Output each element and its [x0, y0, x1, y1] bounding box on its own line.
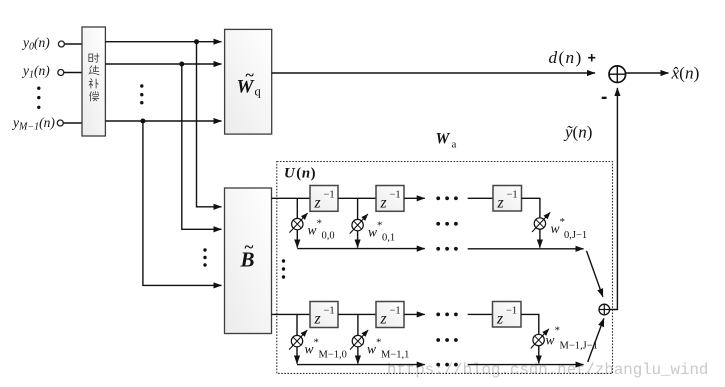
wire row2 branch2 down through multiplier	[357, 314, 359, 363]
vertical ellipsis between rows	[282, 259, 285, 278]
multiplier wM-1,0	[289, 330, 307, 350]
wire branch2 down to B	[182, 64, 222, 229]
svg-text:0,1: 0,1	[382, 233, 395, 244]
svg-text:y1(n): y1(n)	[21, 63, 50, 81]
vertical ellipsis between wires	[140, 84, 143, 104]
block B	[225, 188, 272, 334]
svg-text:a: a	[452, 139, 457, 151]
wire row1 branch1 down through multiplier	[296, 198, 298, 247]
svg-text:−1: −1	[324, 306, 335, 317]
wire row1 branch2 down through multiplier	[357, 198, 359, 247]
wire row2 bus right	[468, 364, 584, 366]
svg-text:yM−1(n): yM−1(n)	[11, 115, 55, 133]
wire into box3 row2	[468, 313, 493, 315]
svg-text:z: z	[496, 310, 503, 327]
svg-text:~: ~	[245, 238, 254, 257]
wire branch1 down to B	[197, 42, 222, 207]
char 补	[89, 79, 98, 88]
wire row2 diagonal to lower summer	[588, 318, 604, 362]
multiplier w00	[289, 213, 307, 233]
svg-text:0,J−1: 0,J−1	[564, 230, 587, 241]
block delay compensation (Chinese label drawn as paths)	[82, 27, 105, 136]
multiplier w0J-1	[532, 212, 550, 232]
svg-text:*: *	[314, 337, 320, 349]
svg-text:*: *	[560, 216, 566, 228]
svg-text:−1: −1	[507, 190, 518, 201]
svg-text:w: w	[367, 342, 376, 357]
svg-text:z: z	[380, 194, 387, 211]
svg-text:M−1,1: M−1,1	[381, 350, 409, 361]
wire output xhat	[626, 72, 669, 74]
ellipsis row2 multiplier level	[436, 338, 457, 342]
summer lower	[599, 304, 610, 315]
svg-text:w: w	[308, 223, 317, 238]
char 延	[89, 66, 99, 75]
delay z^-1 row2 box2	[376, 302, 404, 328]
wire box2 out arrow row2	[404, 313, 425, 315]
dashed box U(n)	[277, 162, 613, 374]
svg-text:z: z	[497, 194, 504, 211]
svg-text:+: +	[588, 51, 596, 67]
delay z^-1 row2 box1	[310, 302, 338, 328]
wire line2 from delay block to Wq	[105, 63, 221, 65]
input terminal circle 1	[58, 41, 64, 47]
delay z^-1 row2 box3	[493, 302, 522, 328]
wire row1 bus	[297, 248, 425, 250]
svg-text:z: z	[314, 194, 321, 211]
wire y1 to delay-compensation block	[64, 72, 82, 74]
delay z^-1 row1 box1	[310, 186, 338, 212]
input terminal circle 3	[57, 120, 63, 126]
wire row1 bus right	[468, 248, 584, 250]
multiplier w01	[350, 214, 368, 234]
junction dot on line2	[179, 62, 184, 67]
wire line1 from delay block to Wq	[105, 41, 221, 43]
svg-text:−1: −1	[506, 306, 517, 317]
input terminal circle 2	[58, 70, 64, 76]
wire d(n) from Wq to summer	[272, 72, 595, 74]
block Wq	[225, 29, 272, 134]
junction dot on line1	[194, 39, 199, 44]
char 偿	[90, 91, 99, 100]
ellipsis row1 multiplier level	[436, 222, 457, 226]
delay z^-1 row1 box3	[493, 186, 522, 212]
junction dot on line3	[140, 119, 145, 124]
ellipsis row1 bus	[436, 247, 457, 251]
svg-text:~: ~	[246, 67, 255, 84]
svg-text:z: z	[314, 310, 321, 327]
wire into box3 row1	[468, 197, 493, 199]
wire ytilde vertical into summer	[610, 88, 618, 310]
svg-text:M−1,0: M−1,0	[319, 350, 347, 361]
ellipsis row2 bus	[436, 363, 457, 367]
wire box2 out arrow row1	[404, 197, 425, 199]
svg-text:w: w	[305, 342, 314, 357]
svg-text:ỹ(n): ỹ(n)	[563, 123, 592, 142]
svg-text:U(n): U(n)	[284, 166, 316, 182]
char 时	[89, 54, 99, 63]
delay z^-1 row1 box2	[376, 186, 404, 212]
wire box3 out and down row1	[522, 198, 540, 247]
svg-text:y0(n): y0(n)	[21, 35, 50, 53]
svg-text:-: -	[601, 87, 607, 108]
svg-text:w: w	[546, 333, 555, 348]
svg-text:−1: −1	[390, 190, 401, 201]
wire line3 from delay block to Wq	[105, 120, 221, 122]
ellipsis row1 line	[436, 196, 457, 200]
wire yM-1 to delay-compensation block	[64, 122, 83, 124]
svg-text:d(n): d(n)	[549, 48, 583, 67]
wire box1 to box2 row1	[338, 197, 376, 199]
svg-text:q: q	[255, 85, 262, 99]
multiplier wM-1,J-1	[531, 329, 549, 349]
svg-text:w: w	[551, 221, 560, 236]
wire box3 out and down row2	[521, 314, 539, 363]
wire row2 bus	[297, 364, 425, 366]
svg-text:−1: −1	[390, 306, 401, 317]
svg-text:x̂(n): x̂(n)	[671, 64, 700, 83]
wire row2 branch1 down through multiplier	[296, 314, 298, 363]
summer main	[609, 66, 626, 83]
svg-text:0,0: 0,0	[322, 231, 335, 242]
svg-text:W: W	[436, 131, 451, 148]
svg-text:*: *	[555, 325, 561, 337]
svg-text:https://blog.csdn.net/zhanglu_: https://blog.csdn.net/zhanglu_wind	[387, 361, 708, 379]
vertical ellipsis before B	[203, 248, 206, 266]
wire y0 to delay-compensation block	[65, 43, 82, 45]
ellipsis row2 line	[436, 313, 457, 317]
wire B output to row2	[272, 313, 311, 315]
wire B output to row1	[272, 197, 311, 199]
vertical ellipsis between inputs	[37, 87, 40, 110]
wire branch3 down to B	[143, 121, 222, 285]
multiplier wM-1,1	[350, 330, 368, 350]
svg-text:−1: −1	[324, 190, 335, 201]
svg-text:*: *	[317, 218, 323, 230]
svg-text:w: w	[368, 225, 377, 240]
svg-text:*: *	[376, 337, 382, 349]
wire box1 to box2 row2	[338, 313, 376, 315]
svg-text:z: z	[380, 310, 387, 327]
svg-text:*: *	[377, 220, 383, 232]
wire row1 diagonal to lower summer	[587, 251, 603, 297]
